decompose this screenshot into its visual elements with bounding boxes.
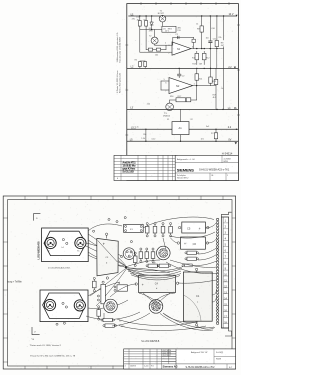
resistor R39 [146,262,160,267]
svg-text:5: 5 [164,79,165,81]
zener diode D1 [149,16,154,32]
svg-text:150: 150 [136,16,139,18]
registration mark bottom-left [32,327,40,335]
transistor T8 (can) [74,300,85,311]
svg-text:9.6: 9.6 [151,366,154,368]
svg-text:X1: X1 [167,119,169,121]
svg-text:*Daten nach f D 1580, Version: *Daten nach f D 1580, Version 2 [30,344,62,347]
resistor R38 [151,248,155,262]
capacitor C6 [177,237,208,249]
resistor R5 pair [135,59,147,68]
svg-text:1k: 1k [196,23,198,25]
svg-text:P.2: P.2 [211,133,214,135]
svg-text:S+03(2): S+03(2) [216,352,224,354]
svg-text:100/94: 100/94 [130,366,136,368]
trimmer P1 (TO-5 with leads) [157,246,171,260]
resistor R31 [145,223,149,237]
wire harness left to center [86,224,140,320]
connector pin separators [223,217,229,323]
scan noise [4,5,238,369]
wire junction knot [86,234,170,306]
svg-text:6: 6 [192,46,193,48]
svg-text:1k8: 1k8 [199,63,202,65]
resistor R47 [185,257,199,260]
svg-text:7: 7 [165,90,166,92]
svg-text:LU31-W9258-A05: LU31-W9258-A05 [38,241,41,260]
label Ausg Teilfilm [7,280,22,283]
connector pin numbers [224,219,227,324]
resistor R46 [185,251,199,254]
resistor R34 [169,223,173,237]
resistor R43 [97,306,101,320]
capacitor C10 [209,16,215,49]
revision table entries [125,350,172,368]
svg-text:1n5: 1n5 [201,138,204,140]
svg-text:3: 3 [168,45,169,47]
heatsink plate G2 with power transistors [40,290,88,322]
svg-text:1: 1 [227,175,228,177]
resistor R40 [157,264,171,267]
svg-text:Ersatz fur W u.W2 nach C/4/EB/: Ersatz fur W u.W2 nach C/4/EB/ 6/+ 23/ e… [30,355,76,358]
svg-text:3n3: 3n3 [206,126,209,128]
svg-text:Aufgezeich + f. Gl: Aufgezeich + f. Gl [177,158,195,161]
resistor R12 [202,51,210,64]
capacitor C1 (large block) [183,268,212,326]
svg-text:R13: R13 [192,63,195,65]
transistor T2 [149,30,158,46]
resistor R2 [143,16,147,50]
Siemens AG name [163,364,178,368]
svg-text:22k: 22k [147,104,150,106]
svg-text:1: 1 [194,84,195,86]
capacitor C11 [213,16,219,49]
wire V+ right rail [223,68,225,109]
transistor T11 (TO-5) [149,300,163,314]
svg-text:R21 u. R22 getauscht: R21 u. R22 getauscht [118,72,121,93]
component value labels [132,16,222,140]
transistor T5 (can) [75,237,86,252]
svg-text:110: 110 [143,134,146,136]
mounting pads plate G2 [62,302,68,308]
svg-text:+: + [184,242,186,246]
svg-text:1-4-6: 1-4-6 [144,366,148,368]
svg-text:Netzteil NT12: Netzteil NT12 [177,177,188,180]
resistor R8 [221,16,225,90]
resistor R9 [197,16,203,49]
resistor R1 [137,16,142,52]
svg-text:A1: A1 [179,126,183,130]
heatsink plate G1 with power transistors [38,228,89,262]
resistor R32 [153,223,157,237]
transistor T10 (TO-5) [104,299,118,313]
svg-text:X2: X2 [190,119,192,121]
transistor T7 (can) [44,299,55,310]
capacitor C13 [211,129,218,141]
resistor R18 [213,68,218,109]
svg-text:+: + [142,283,144,287]
svg-text:C5: C5 [187,226,191,230]
svg-text:R16: R16 [170,96,173,98]
wire column x210 [209,49,211,69]
svg-text:0.22: 0.22 [152,138,156,140]
transistor T3 [163,100,173,118]
resistor R15 [209,68,217,85]
svg-text:2: 2 [168,53,169,55]
svg-text:R5: R5 [135,59,137,61]
resistor R42 (long) [97,281,105,304]
resistor R35 [133,252,137,266]
mounting pads plate G1 [62,239,68,249]
title block: company block [175,155,238,180]
net L3 rail [127,107,238,110]
transistor T6 [114,283,127,292]
wires to edge connector [143,217,217,329]
capacitor C3 (large axial) [97,233,118,279]
title block: revision table [114,155,177,180]
junction dots [139,15,237,142]
svg-text:10k: 10k [155,54,158,56]
resistor R45 [103,324,124,328]
revision stamp [122,160,136,173]
svg-text:470: 470 [132,19,135,21]
resistor R37 [145,248,149,262]
sheet frame [3,196,235,369]
net arrow L5 [235,142,237,144]
svg-text:0V: 0V [228,138,231,141]
op-amp N2 [161,78,216,94]
net L2 rail [127,66,238,69]
svg-text:SIEMENS: SIEMENS [177,168,194,173]
net L4 rail [127,126,238,129]
svg-text:2x: 2x [137,127,139,129]
capacitor C1 feedback [173,34,196,48]
svg-text:4: 4 [125,366,126,368]
capacitor C2 [177,68,185,77]
drawing number note H-34E14 [222,151,233,155]
svg-text:BC327: BC327 [158,13,165,15]
resistor R11 [192,51,199,64]
svg-text:Sd 31.3.83: Sd 31.3.83 [122,169,134,173]
net L1 (+14V rail) [129,13,238,16]
capacitor C12 [141,129,146,141]
net L5 rail [127,138,238,141]
resistor R41 [93,277,97,291]
svg-text:R9: R9 [119,320,121,322]
svg-text:C1: C1 [196,294,200,298]
registration mark top-left [34,213,41,220]
svg-text:1.5k: 1.5k [141,138,145,140]
svg-text:ZPD: ZPD [149,30,153,32]
sheet frame [126,2,240,180]
transistor T9 (TO-39) [123,248,135,260]
solder pads misc [56,217,133,326]
wires over C4 [127,267,183,280]
resistor R33 [161,223,165,237]
wire T1 collector [162,22,164,26]
svg-text:R/2W: R/2W [216,359,221,361]
svg-text:C6: C6 [193,242,197,246]
solder pads column [216,218,218,324]
edge connector X1 [221,212,231,336]
capacitor C4 (large) [135,275,179,292]
resistor R4 [146,45,166,51]
svg-text:2N3055: 2N3055 [163,116,171,118]
module A1 [172,110,189,142]
note under plate G1 [48,267,71,270]
svg-text:4 LU31-W9200-A05+B Bef.: 4 LU31-W9200-A05+B Bef. [48,267,71,270]
wire harness bottom [104,284,213,330]
svg-text:S-HU31-W9258-A23-x-7K1: S-HU31-W9258-A23-x-7K1 [199,169,230,172]
svg-text:1k: 1k [221,88,223,90]
svg-text:Kondensator C8 100n MKH: Kondensator C8 100n MKH [118,37,121,63]
svg-text:Ausg + Teilfilm: Ausg + Teilfilm [7,280,22,283]
title block bottom right fields [186,349,236,369]
wire column x216 [216,49,218,69]
relay K1 [124,224,144,232]
capacitor C5 [178,222,209,233]
svg-text:10n: 10n [206,38,209,40]
bottom notes [30,339,76,358]
svg-text:22k: 22k [218,37,221,39]
regulator U1 [140,26,182,32]
resistor R17 feedback [170,86,197,102]
svg-text:6: 6 [165,82,166,84]
resistor R36 [139,248,143,262]
board designation text [141,341,160,343]
op-amp N1 [140,42,224,55]
revision note text (rotated, left margin) [116,32,122,93]
svg-text:2: 2 [165,43,166,45]
title block bottom: revision table [124,349,236,369]
transistor T1 [158,10,166,22]
svg-text:N2: N2 [176,84,180,88]
transistor T4 (can) [45,237,56,252]
svg-text:05-2 R/97: 05-2 R/97 [163,355,171,357]
resistor R44 [101,318,121,322]
resistor R14 [195,68,203,85]
diode D2 [182,264,192,267]
svg-text:H-34E14: H-34E14 [222,151,233,155]
svg-text:Siemens AG: Siemens AG [163,364,178,368]
